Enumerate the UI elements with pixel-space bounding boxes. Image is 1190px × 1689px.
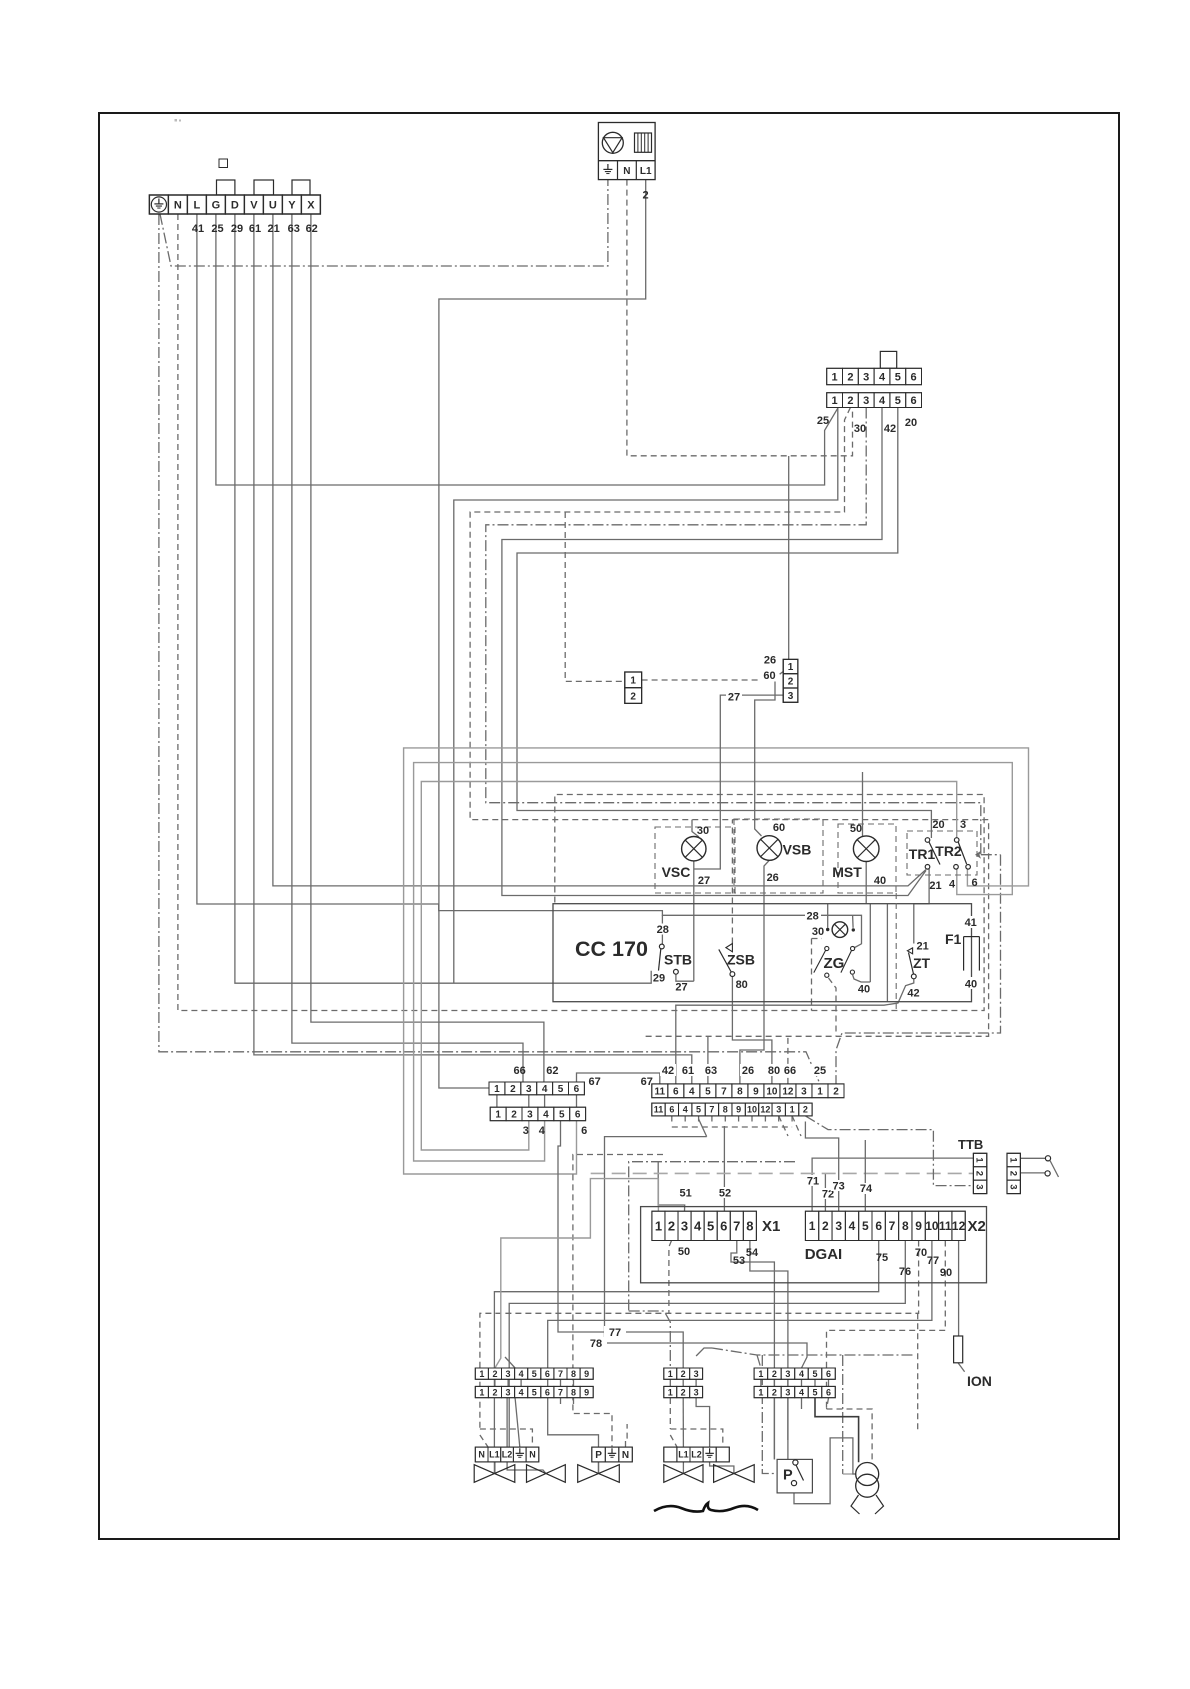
svg-text:73: 73 — [832, 1181, 844, 1193]
svg-text:4: 4 — [542, 1084, 548, 1095]
svg-text:3: 3 — [785, 1387, 790, 1397]
svg-text:2: 2 — [642, 190, 648, 202]
svg-text:11: 11 — [655, 1086, 666, 1097]
svg-text:6: 6 — [574, 1084, 580, 1095]
svg-text:8: 8 — [746, 1219, 753, 1234]
svg-text:ION: ION — [967, 1373, 992, 1389]
svg-text:2: 2 — [822, 1219, 829, 1233]
svg-text:3: 3 — [1007, 1184, 1018, 1189]
svg-text:10: 10 — [925, 1219, 939, 1233]
svg-text:53: 53 — [733, 1255, 745, 1267]
svg-text:3: 3 — [785, 1369, 790, 1379]
svg-text:N: N — [623, 166, 630, 177]
svg-text:20: 20 — [905, 417, 917, 429]
svg-text:3: 3 — [526, 1084, 532, 1095]
svg-text:F1: F1 — [945, 931, 962, 947]
svg-text:6: 6 — [911, 395, 917, 407]
svg-text:40: 40 — [965, 979, 977, 991]
svg-text:TTB: TTB — [958, 1137, 983, 1152]
svg-text:TR1: TR1 — [909, 846, 936, 862]
svg-text:MST: MST — [832, 864, 862, 880]
svg-text:3: 3 — [801, 1086, 807, 1097]
svg-text:12: 12 — [760, 1105, 770, 1115]
svg-text:1: 1 — [479, 1369, 484, 1379]
svg-text:6: 6 — [971, 877, 977, 889]
svg-text:1: 1 — [832, 395, 838, 407]
svg-text:4: 4 — [799, 1369, 804, 1379]
svg-text:2: 2 — [974, 1171, 985, 1176]
svg-text:4: 4 — [543, 1110, 549, 1121]
svg-text:2: 2 — [803, 1105, 808, 1115]
svg-text:3: 3 — [776, 1105, 781, 1115]
svg-text:Y: Y — [288, 199, 296, 211]
svg-text:2: 2 — [1007, 1171, 1018, 1176]
svg-text:2: 2 — [511, 1110, 517, 1121]
svg-text:2: 2 — [847, 371, 853, 383]
svg-text:1: 1 — [1007, 1157, 1018, 1163]
svg-text:50: 50 — [678, 1246, 690, 1258]
svg-text:29: 29 — [653, 973, 665, 985]
svg-text:1: 1 — [668, 1387, 673, 1397]
svg-text:9: 9 — [736, 1105, 741, 1115]
svg-text:63: 63 — [705, 1065, 717, 1077]
svg-text:40: 40 — [874, 875, 886, 887]
svg-text:29: 29 — [231, 223, 243, 235]
svg-text:40: 40 — [858, 984, 870, 996]
svg-text:60: 60 — [773, 822, 785, 834]
svg-text:L2: L2 — [691, 1450, 702, 1460]
svg-text:3: 3 — [506, 1369, 511, 1379]
svg-text:6: 6 — [581, 1125, 587, 1137]
svg-text:42: 42 — [907, 988, 919, 1000]
svg-text:6: 6 — [545, 1387, 550, 1397]
svg-text:11: 11 — [939, 1219, 952, 1233]
svg-text:7: 7 — [709, 1105, 714, 1115]
svg-text:11: 11 — [654, 1105, 664, 1115]
svg-text:21: 21 — [929, 880, 941, 892]
svg-text:L: L — [194, 199, 201, 211]
svg-text:7: 7 — [558, 1387, 563, 1397]
svg-text:25: 25 — [814, 1065, 826, 1077]
svg-text:P: P — [595, 1450, 602, 1461]
svg-text:61: 61 — [682, 1065, 694, 1077]
svg-text:80: 80 — [736, 979, 748, 991]
svg-text:4: 4 — [694, 1219, 702, 1234]
svg-text:3: 3 — [960, 819, 966, 831]
svg-text:3: 3 — [681, 1219, 688, 1234]
svg-text:L1: L1 — [489, 1450, 500, 1460]
svg-text:42: 42 — [884, 423, 896, 435]
svg-text:76: 76 — [899, 1266, 911, 1278]
svg-text:1: 1 — [494, 1084, 500, 1095]
svg-text:2: 2 — [772, 1387, 777, 1397]
svg-text:2: 2 — [847, 395, 853, 407]
svg-text:42: 42 — [662, 1065, 674, 1077]
svg-text:3: 3 — [523, 1125, 529, 1137]
svg-text:4: 4 — [539, 1125, 546, 1137]
svg-text:STB: STB — [664, 952, 692, 968]
svg-text:8: 8 — [737, 1086, 743, 1097]
svg-text:41: 41 — [965, 917, 977, 929]
svg-text:4: 4 — [879, 371, 886, 383]
svg-text:8: 8 — [571, 1369, 576, 1379]
svg-text:1: 1 — [630, 676, 636, 687]
svg-text:D: D — [231, 199, 239, 211]
svg-text:4: 4 — [683, 1105, 688, 1115]
svg-text:5: 5 — [558, 1084, 564, 1095]
svg-text:1: 1 — [817, 1086, 823, 1097]
svg-text:63: 63 — [288, 223, 300, 235]
svg-text:50: 50 — [850, 823, 862, 835]
svg-text:7: 7 — [721, 1086, 727, 1097]
svg-text:7: 7 — [558, 1369, 563, 1379]
svg-text:DGAI: DGAI — [805, 1246, 843, 1263]
svg-text:6: 6 — [575, 1110, 581, 1121]
svg-text:4: 4 — [689, 1086, 695, 1097]
svg-text:27: 27 — [698, 875, 710, 887]
svg-text:2: 2 — [772, 1369, 777, 1379]
svg-text:6: 6 — [826, 1387, 831, 1397]
svg-text:5: 5 — [532, 1369, 537, 1379]
svg-text:5: 5 — [812, 1387, 817, 1397]
svg-text:1: 1 — [655, 1219, 662, 1234]
svg-text:3: 3 — [506, 1387, 511, 1397]
svg-text:2: 2 — [681, 1387, 686, 1397]
svg-text:1: 1 — [788, 662, 794, 673]
svg-text:4: 4 — [519, 1387, 524, 1397]
svg-text:G: G — [212, 199, 221, 211]
svg-text:5: 5 — [812, 1369, 817, 1379]
svg-text:75: 75 — [876, 1252, 888, 1264]
svg-text:3: 3 — [527, 1110, 533, 1121]
svg-text:77: 77 — [927, 1255, 939, 1267]
svg-text:78: 78 — [590, 1338, 602, 1350]
svg-text:1: 1 — [495, 1110, 501, 1121]
svg-text:3: 3 — [694, 1387, 699, 1397]
svg-text:8: 8 — [902, 1219, 909, 1233]
svg-text:9: 9 — [915, 1219, 922, 1233]
svg-text:51: 51 — [679, 1188, 691, 1200]
svg-text:6: 6 — [911, 371, 917, 383]
svg-text:10: 10 — [766, 1086, 778, 1097]
svg-text:2: 2 — [492, 1387, 497, 1397]
svg-text:1: 1 — [758, 1369, 763, 1379]
svg-text:V: V — [250, 199, 258, 211]
svg-text:N: N — [174, 199, 182, 211]
svg-text:74: 74 — [860, 1183, 873, 1195]
svg-text:2: 2 — [833, 1086, 839, 1097]
svg-text:3: 3 — [835, 1219, 842, 1233]
svg-text:1: 1 — [809, 1219, 816, 1233]
svg-text:21: 21 — [267, 223, 279, 235]
svg-text:26: 26 — [767, 872, 779, 884]
svg-text:6: 6 — [545, 1369, 550, 1379]
svg-text:6: 6 — [720, 1219, 727, 1234]
svg-text:2: 2 — [681, 1369, 686, 1379]
svg-text:28: 28 — [806, 910, 818, 922]
svg-text:L1: L1 — [678, 1450, 689, 1460]
svg-text:N: N — [622, 1450, 629, 1461]
svg-text:25: 25 — [817, 415, 829, 427]
svg-text:41: 41 — [192, 223, 204, 235]
svg-text:26: 26 — [742, 1065, 754, 1077]
svg-text:N: N — [529, 1450, 536, 1460]
svg-text:TR2: TR2 — [935, 843, 962, 859]
svg-text:67: 67 — [588, 1076, 600, 1088]
svg-text:30: 30 — [854, 423, 866, 435]
svg-text:5: 5 — [705, 1086, 711, 1097]
svg-text:ZT: ZT — [913, 955, 931, 971]
svg-text:4: 4 — [799, 1387, 804, 1397]
svg-text:9: 9 — [584, 1387, 589, 1397]
svg-text:4: 4 — [849, 1219, 856, 1233]
svg-text:U: U — [269, 199, 277, 211]
svg-text:L1: L1 — [640, 166, 652, 177]
svg-text:20: 20 — [932, 819, 944, 831]
svg-text:6: 6 — [826, 1369, 831, 1379]
svg-text:28: 28 — [657, 924, 669, 936]
svg-text:5: 5 — [862, 1219, 869, 1233]
svg-text:70: 70 — [915, 1247, 927, 1259]
svg-text:VSC: VSC — [662, 864, 691, 880]
svg-text:N: N — [478, 1450, 485, 1460]
svg-text:5: 5 — [895, 395, 901, 407]
svg-text:5: 5 — [895, 371, 901, 383]
svg-text:12: 12 — [782, 1086, 794, 1097]
svg-text:3: 3 — [694, 1369, 699, 1379]
svg-text:67: 67 — [641, 1076, 653, 1088]
svg-text:7: 7 — [889, 1219, 896, 1233]
svg-text:3: 3 — [974, 1184, 985, 1189]
svg-text:9: 9 — [584, 1369, 589, 1379]
svg-text:30: 30 — [812, 926, 824, 938]
svg-text:4: 4 — [949, 879, 956, 891]
svg-text:2: 2 — [668, 1219, 675, 1234]
svg-text:5: 5 — [532, 1387, 537, 1397]
svg-text:80: 80 — [768, 1065, 780, 1077]
svg-text:4: 4 — [519, 1369, 524, 1379]
svg-text:62: 62 — [306, 223, 318, 235]
svg-text:1: 1 — [974, 1157, 985, 1163]
svg-text:77: 77 — [609, 1327, 621, 1339]
svg-text:CC 170: CC 170 — [575, 937, 648, 961]
svg-text:9: 9 — [753, 1086, 759, 1097]
svg-text:5: 5 — [696, 1105, 701, 1115]
svg-text:3: 3 — [863, 371, 869, 383]
svg-text:2: 2 — [510, 1084, 516, 1095]
svg-text:6: 6 — [673, 1086, 679, 1097]
svg-text:12: 12 — [952, 1219, 966, 1233]
svg-text:X1: X1 — [762, 1218, 780, 1235]
svg-text:26: 26 — [764, 655, 776, 667]
svg-text:25: 25 — [211, 223, 223, 235]
svg-text:5: 5 — [559, 1110, 565, 1121]
svg-text:1: 1 — [479, 1387, 484, 1397]
svg-text:90: 90 — [940, 1267, 952, 1279]
svg-text:10: 10 — [747, 1105, 757, 1115]
svg-text:4: 4 — [879, 395, 886, 407]
svg-text:30: 30 — [697, 825, 709, 837]
svg-text:54: 54 — [746, 1247, 759, 1259]
svg-text:X2: X2 — [968, 1218, 986, 1235]
svg-text:6: 6 — [875, 1219, 882, 1233]
svg-text:66: 66 — [513, 1065, 525, 1077]
svg-text:1: 1 — [790, 1105, 795, 1115]
svg-text:8: 8 — [571, 1387, 576, 1397]
svg-text:VSB: VSB — [783, 842, 812, 858]
svg-text:61: 61 — [249, 223, 261, 235]
svg-text:62: 62 — [546, 1065, 558, 1077]
svg-text:5: 5 — [707, 1219, 714, 1234]
svg-text:2: 2 — [788, 677, 794, 688]
svg-text:27: 27 — [675, 982, 687, 994]
svg-text:ZSB: ZSB — [727, 952, 755, 968]
svg-text:X: X — [307, 199, 315, 211]
svg-text:7: 7 — [733, 1219, 740, 1234]
svg-text:ZG: ZG — [824, 955, 845, 972]
svg-text:1: 1 — [668, 1369, 673, 1379]
svg-text:3: 3 — [863, 395, 869, 407]
svg-text:60: 60 — [763, 670, 775, 682]
svg-text:1: 1 — [758, 1387, 763, 1397]
svg-text:P: P — [783, 1468, 793, 1484]
svg-text:27: 27 — [728, 691, 740, 703]
svg-text:8: 8 — [723, 1105, 728, 1115]
svg-text:71: 71 — [807, 1176, 819, 1188]
svg-text:21: 21 — [916, 941, 928, 953]
svg-text:3: 3 — [788, 691, 794, 702]
svg-text:L2: L2 — [502, 1450, 513, 1460]
svg-text:66: 66 — [784, 1065, 796, 1077]
svg-text:1: 1 — [832, 371, 838, 383]
svg-text:6: 6 — [669, 1105, 674, 1115]
svg-text:2: 2 — [492, 1369, 497, 1379]
svg-text:2: 2 — [630, 691, 636, 702]
svg-text:52: 52 — [719, 1188, 731, 1200]
